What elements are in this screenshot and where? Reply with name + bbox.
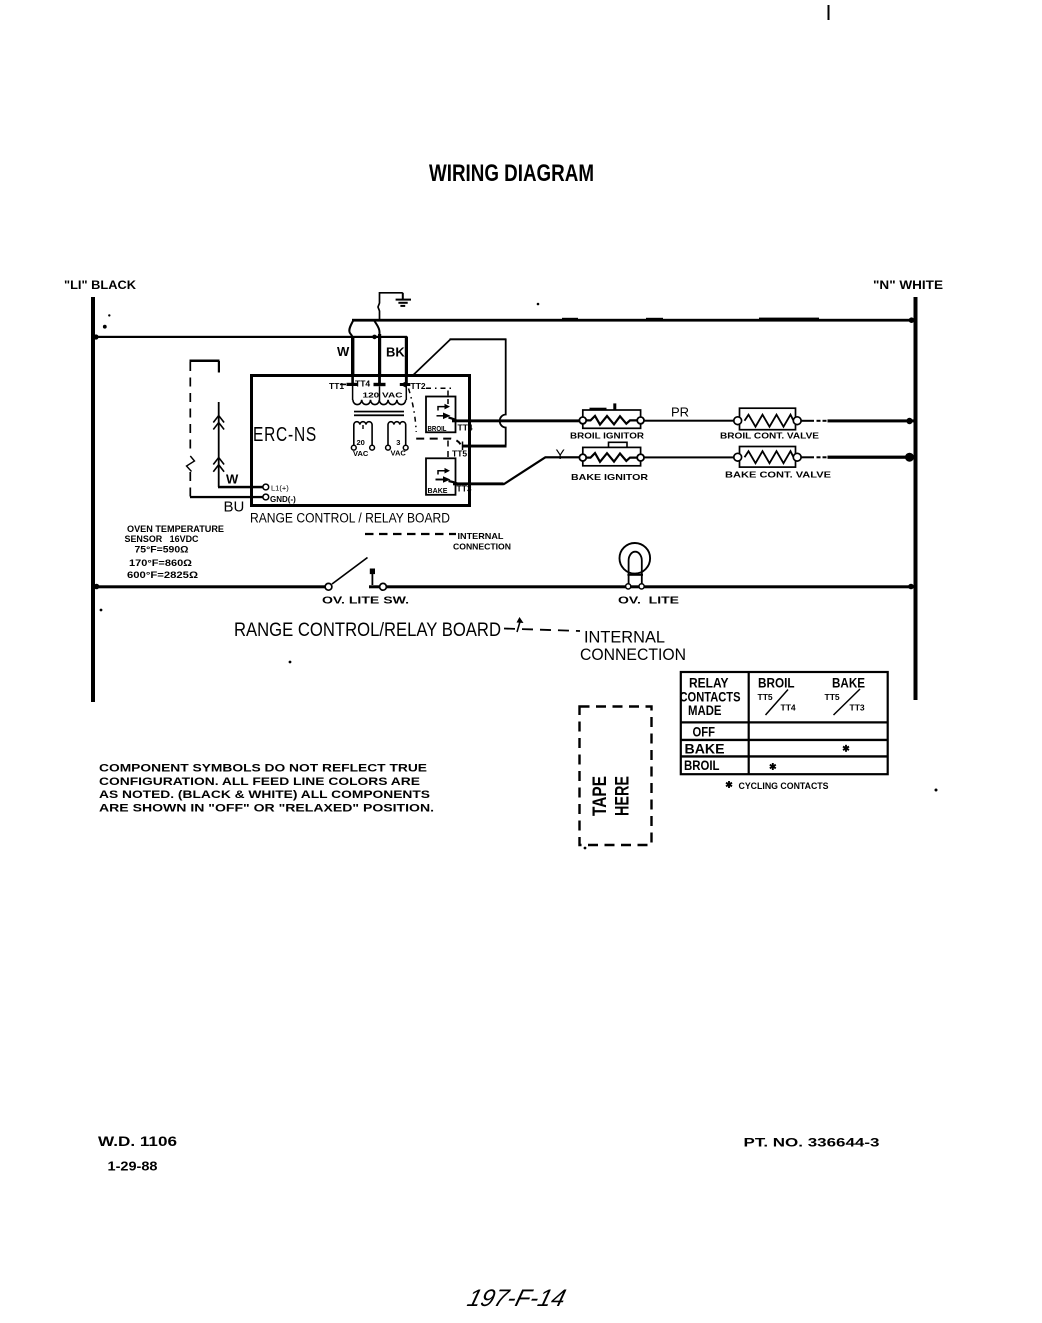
wire: TT2 jumper vertical with hop over broil line: [500, 339, 506, 446]
relay K1 BROIL box: [426, 397, 456, 433]
sensor element line: [218, 402, 220, 487]
svg-text:WIRING DIAGRAM: WIRING DIAGRAM: [429, 160, 594, 187]
svg-text:75°F=590Ω: 75°F=590Ω: [135, 544, 189, 554]
svg-text:"N" WHITE: "N" WHITE: [873, 280, 943, 292]
range control / relay board outline: [252, 376, 470, 506]
legend dashes: [365, 533, 456, 535]
svg-text:CONNECTION: CONNECTION: [453, 542, 511, 552]
internal connection dash-dot TT2 to TT5: [409, 389, 417, 433]
svg-text:W: W: [337, 344, 350, 359]
node bake row at N: [905, 453, 914, 462]
relay K2 contact upper: [438, 471, 445, 475]
svg-text:OFF: OFF: [693, 725, 716, 740]
svg-text:INTERNAL: INTERNAL: [584, 629, 665, 647]
table header RELAY CONTACTS MADE: [680, 676, 741, 719]
svg-text:L1(+): L1(+): [271, 484, 289, 493]
svg-text:BAKE: BAKE: [685, 741, 725, 756]
wire bake ignitor to valve: [644, 456, 734, 458]
svg-text:TAPE: TAPE: [589, 776, 611, 816]
relay K1 output curve: [449, 418, 458, 422]
internal connection dash to bake relay: [447, 441, 449, 459]
svg-text:600°F=2825Ω: 600°F=2825Ω: [127, 570, 198, 580]
transformer primary coil: [353, 400, 406, 405]
wire: line A thick spot 2: [759, 318, 819, 321]
svg-text:BK: BK: [386, 345, 405, 360]
svg-text:TT4: TT4: [355, 379, 370, 389]
svg-text:TT5: TT5: [452, 448, 467, 458]
svg-text:TT4: TT4: [781, 703, 796, 713]
svg-text:OV. LITE SW.: OV. LITE SW.: [322, 594, 409, 606]
svg-text:COMPONENT SYMBOLS DO NOT REFLE: COMPONENT SYMBOLS DO NOT REFLECT TRUE: [99, 763, 427, 775]
wire BU sensor to GND: [190, 496, 263, 498]
relay K2 output curve: [449, 481, 459, 484]
svg-text:VAC: VAC: [391, 448, 407, 457]
asterisk bake/TT3: [843, 745, 849, 752]
svg-text:ERC-NS: ERC-NS: [253, 424, 317, 446]
svg-text:OV. LITE: OV. LITE: [618, 594, 679, 606]
svg-text:BROIL IGNITOR: BROIL IGNITOR: [570, 430, 644, 440]
terminal L1(+): [263, 484, 269, 490]
svg-text:OVEN TEMPERATURE: OVEN TEMPERATURE: [127, 524, 224, 534]
table row line 2: [680, 739, 888, 741]
wire: oven lite line left part: [93, 585, 326, 588]
svg-text:PT. NO. 336644-3: PT. NO. 336644-3: [744, 1136, 880, 1150]
oven temperature sensor top wire: [190, 360, 220, 363]
wire broil ignitor to valve: [644, 420, 734, 422]
asterisk broil/TT4: [770, 763, 776, 770]
node: junction on line B: [372, 335, 377, 340]
svg-text:1-29-88: 1-29-88: [108, 1159, 158, 1174]
svg-text:120 VAC: 120 VAC: [363, 391, 404, 400]
svg-text:BAKE: BAKE: [428, 486, 448, 495]
internal connection dash-dot TT2 to broil relay: [426, 387, 455, 389]
wire broil valve to N: [801, 420, 814, 422]
svg-text:CONNECTION: CONNECTION: [580, 646, 686, 664]
switch OV. LITE SW.: [325, 558, 386, 591]
sensor dashed left lead: [189, 362, 191, 455]
wire: TT2 jumper horizontal: [450, 338, 507, 340]
svg-text:"LI" BLACK: "LI" BLACK: [64, 280, 137, 292]
wire W sensor to L1: [218, 486, 263, 489]
table row line 3: [680, 755, 888, 757]
svg-text:BROIL CONT. VALVE: BROIL CONT. VALVE: [720, 430, 819, 440]
svg-text:W.D. 1106: W.D. 1106: [98, 1134, 178, 1149]
relay K1 contact lower: [437, 415, 444, 417]
terminal TT4: [355, 376, 386, 400]
scan specks: [100, 303, 938, 850]
svg-text:GND(-): GND(-): [270, 495, 296, 504]
svg-text:20: 20: [357, 438, 365, 447]
N white bus (right vertical): [914, 297, 918, 700]
svg-text:HERE: HERE: [612, 776, 634, 816]
svg-text:BROIL: BROIL: [684, 758, 720, 773]
terminal GND(-): [263, 494, 269, 500]
LI black bus (left vertical): [91, 297, 95, 702]
wire: LI feed line B: [93, 336, 407, 338]
relay contacts table frame: [681, 672, 888, 774]
table column divider: [748, 671, 750, 775]
svg-text:TT5: TT5: [758, 692, 773, 702]
broil control valve: [720, 408, 819, 440]
wire TT5 out: [462, 445, 507, 448]
svg-text:3: 3: [396, 438, 400, 447]
wire BK (line B end to TT2): [405, 337, 408, 377]
svg-text:TT1: TT1: [329, 381, 344, 391]
transformer core: [354, 411, 404, 413]
node: oven lite line at LI: [94, 584, 100, 590]
node: line B to LI bus: [93, 334, 98, 339]
wire: oven lite line right part: [369, 585, 915, 588]
svg-text:170°F=860Ω: 170°F=860Ω: [129, 558, 192, 568]
svg-text:INTERNAL: INTERNAL: [458, 531, 504, 541]
svg-text:BROIL: BROIL: [758, 676, 795, 691]
svg-text:CYCLING CONTACTS: CYCLING CONTACTS: [739, 781, 829, 792]
relay K2 BAKE box: [426, 458, 456, 495]
tick at TT5 entry: [462, 442, 464, 451]
caption leader dashes: [504, 629, 580, 632]
component note paragraph: [99, 763, 434, 815]
svg-text:CONFIGURATION. ALL FEED LINE: CONFIGURATION. ALL FEED LINE COLORS ARE: [99, 776, 420, 788]
svg-text:BAKE IGNITOR: BAKE IGNITOR: [571, 472, 648, 482]
bake ignitor: [571, 442, 648, 482]
wire bake diagonal: [503, 457, 545, 484]
svg-text:BAKE: BAKE: [832, 676, 865, 691]
svg-text:SENSOR 16VDC: SENSOR 16VDC: [125, 534, 199, 544]
svg-text:ARE SHOWN IN "OFF" OR "RELAXED: ARE SHOWN IN "OFF" OR "RELAXED" POSITION…: [99, 802, 434, 814]
svg-text:Y: Y: [556, 446, 566, 462]
wire: line A drop to TT4: [375, 321, 380, 339]
svg-text:AS NOTED. (BLACK & WHITE) ALL: AS NOTED. (BLACK & WHITE) ALL COMPONENTS: [99, 789, 430, 801]
wire: TT2 jumper diagonal: [414, 339, 451, 375]
svg-text:RANGE CONTROL / RELAY BOARD: RANGE CONTROL / RELAY BOARD: [250, 511, 450, 526]
page top tick mark: [828, 5, 830, 20]
lamp OV. LITE: [620, 543, 651, 589]
table row line 1: [680, 721, 888, 723]
ground symbol: [396, 293, 411, 306]
wire: ground branch: [378, 293, 403, 320]
relay K2 contact lower: [436, 479, 444, 481]
svg-text:PR: PR: [671, 405, 689, 420]
svg-text:BAKE CONT. VALVE: BAKE CONT. VALVE: [725, 469, 831, 479]
node: line A to N bus: [909, 317, 915, 323]
bake control valve: [725, 447, 831, 480]
node broil row at N: [906, 418, 912, 424]
svg-text:RELAY: RELAY: [689, 676, 729, 691]
secondary winding 3 VAC: [386, 422, 409, 458]
terminal TT2: [400, 376, 426, 400]
wire bake valve to N: [801, 456, 814, 458]
tape here dashed box: [580, 707, 652, 846]
svg-text:BROIL: BROIL: [428, 424, 447, 433]
svg-text:MADE: MADE: [688, 703, 722, 718]
svg-text:TT2: TT2: [411, 381, 426, 391]
wire: bake relay output: [453, 482, 504, 485]
broil ignitor: [570, 403, 644, 440]
svg-text:VAC: VAC: [353, 449, 369, 458]
svg-text:197-F-14: 197-F-14: [464, 1285, 568, 1312]
caption leader tick: [517, 620, 521, 632]
svg-text:RANGE CONTROL/RELAY BOARD: RANGE CONTROL/RELAY BOARD: [234, 620, 501, 641]
svg-text:TT3: TT3: [850, 703, 865, 713]
wire: line A left hook down to W: [349, 320, 353, 338]
wire: broil relay output: [452, 419, 581, 422]
sensor chevrons: [213, 416, 224, 472]
svg-text:BU: BU: [224, 499, 245, 516]
svg-text:W: W: [226, 472, 239, 487]
node: oven lite line at N: [908, 584, 914, 590]
sensor lead squiggle: [187, 456, 195, 472]
svg-text:TT5: TT5: [825, 692, 840, 702]
wire: line A thick spot 1: [562, 318, 578, 322]
terminal TT1: [329, 376, 358, 400]
legend asterisk cycling contacts: [726, 781, 732, 788]
wire Y segment: [545, 456, 580, 458]
relay K1 contact upper: [438, 407, 445, 411]
svg-text:TT4: TT4: [458, 423, 473, 433]
wire W (to TT1): [351, 337, 354, 376]
wire: top feed line A: [352, 319, 914, 322]
secondary winding 20 VAC: [351, 422, 374, 458]
